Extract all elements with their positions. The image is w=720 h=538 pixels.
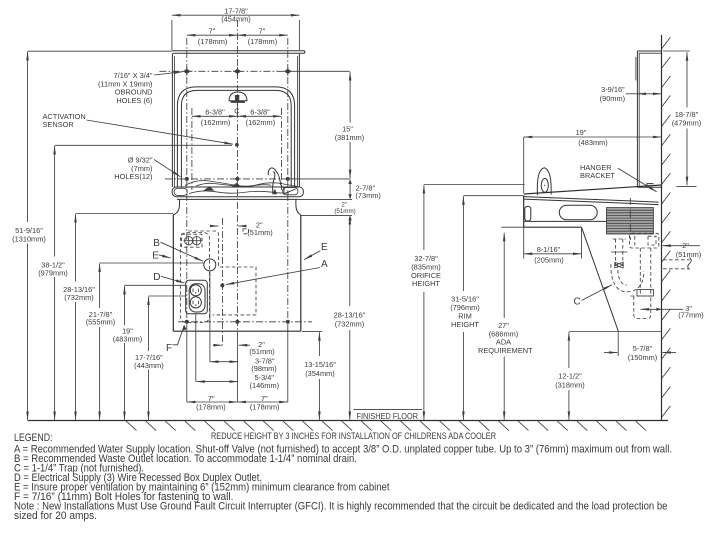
dim 27 ADA [501, 226, 524, 228]
svg-text:(479mm): (479mm) [672, 118, 702, 127]
bubbler (front view) [268, 168, 284, 195]
obround holes row 1 [184, 69, 189, 73]
svg-text:(162mm): (162mm) [246, 118, 276, 127]
dim 3-7/8 [210, 361, 238, 363]
tailpiece dashed [634, 296, 651, 319]
duplex outlet box D [186, 280, 208, 314]
water supply dashed zone A [188, 231, 256, 315]
svg-text:7": 7" [209, 27, 216, 36]
body seam [524, 220, 607, 222]
sloped lower panel [582, 227, 619, 331]
svg-text:BRACKET: BRACKET [580, 171, 615, 180]
svg-text:12-1/2": 12-1/2" [558, 372, 582, 381]
svg-text:(51mm): (51mm) [249, 347, 274, 356]
waste outlet alt circles [185, 237, 193, 245]
holes row 2 [185, 177, 189, 181]
hanger bracket bottom [637, 186, 661, 188]
svg-text:A: A [321, 259, 328, 270]
svg-text:E: E [321, 242, 328, 253]
dim 2-7/8 [348, 179, 351, 184]
svg-text:(1310mm): (1310mm) [12, 235, 46, 244]
vent grille [607, 208, 654, 234]
svg-text:2": 2" [682, 241, 689, 250]
svg-text:(205mm): (205mm) [534, 255, 564, 264]
side panel [637, 50, 661, 52]
rim band lines [524, 197, 659, 203]
cabinet shoulders [173, 199, 179, 214]
svg-text:13-15/16": 13-15/16" [304, 360, 336, 369]
tray lip line [177, 198, 299, 200]
dim 21-7/8 [100, 262, 204, 264]
floor hatching [126, 421, 646, 431]
svg-text:(732mm): (732mm) [335, 320, 365, 329]
svg-text:HOLES(12): HOLES(12) [114, 172, 152, 181]
svg-text:Note : New Installations Must: Note : New Installations Must Use Ground… [14, 501, 668, 513]
waste outlet circle B [204, 259, 216, 271]
wall line [661, 35, 663, 421]
dim 17-7/16 [149, 295, 186, 297]
grille centerline [629, 198, 631, 240]
svg-text:(483mm): (483mm) [578, 138, 608, 147]
cooler top surface [524, 185, 662, 194]
bottom edge [524, 226, 582, 228]
svg-text:(318mm): (318mm) [555, 381, 585, 390]
svg-text:(555mm): (555mm) [86, 318, 116, 327]
dim 2 center cabinet [211, 225, 219, 227]
back panel sides [171, 53, 173, 187]
svg-text:REQUIREMENT: REQUIREMENT [478, 346, 533, 355]
svg-text:HEIGHT: HEIGHT [451, 320, 479, 329]
svg-text:(73mm): (73mm) [355, 191, 380, 200]
mounting hole centerline row 1 [159, 70, 289, 72]
dim 19 left [125, 284, 186, 286]
dim 6-3/8 left [192, 115, 238, 117]
wall stub pipe dashed [663, 259, 690, 261]
svg-text:E: E [152, 251, 159, 262]
dim 28-13/16 right [349, 216, 351, 306]
svg-text:8-1/16": 8-1/16" [537, 245, 561, 254]
dim 3-9/16 [637, 93, 661, 95]
svg-text:(51mm): (51mm) [247, 228, 272, 237]
dim 28-13/16 left [76, 213, 174, 215]
louver pill [559, 205, 597, 219]
svg-text:6-3/8": 6-3/8" [205, 108, 225, 117]
waste arm dashed [630, 233, 659, 248]
cabinet sides and bottom [172, 215, 174, 331]
receptor tray [172, 187, 303, 197]
hole column centerlines [186, 38, 188, 331]
trap C curve [611, 264, 644, 292]
dim 32-7/8 orifice height [424, 184, 525, 186]
svg-text:C: C [574, 297, 581, 308]
svg-text:(150mm): (150mm) [628, 353, 658, 362]
dim 5-7/8 [617, 332, 619, 357]
svg-text:28-13/16": 28-13/16" [334, 311, 366, 320]
svg-text:FINISHED FLOOR: FINISHED FLOOR [357, 412, 419, 421]
svg-text:REDUCE HEIGHT BY 3 INCHES FOR: REDUCE HEIGHT BY 3 INCHES FOR INSTALLATI… [211, 431, 496, 441]
dim 19 side [524, 136, 662, 138]
dim 51-9/16 [28, 50, 172, 52]
svg-text:sized for 20 amps.: sized for 20 amps. [14, 510, 97, 522]
basin outer outline [177, 87, 294, 187]
svg-text:(381mm): (381mm) [335, 133, 365, 142]
svg-text:6-3/8": 6-3/8" [250, 108, 270, 117]
basin inner outline [181, 90, 291, 187]
dim 7 bottom right [237, 401, 287, 403]
finished floor label [354, 409, 423, 411]
activation sensor housing arch [229, 92, 247, 101]
svg-text:(90mm): (90mm) [600, 94, 625, 103]
holes row 3 [185, 320, 189, 324]
bubbler (side view) [537, 168, 551, 195]
svg-text:(178mm): (178mm) [198, 37, 228, 46]
svg-text:(178mm): (178mm) [250, 403, 280, 412]
svg-text:19": 19" [576, 128, 587, 137]
dim 8-1/16 [523, 227, 525, 258]
svg-text:(354mm): (354mm) [305, 369, 335, 378]
svg-text:(146mm): (146mm) [250, 381, 280, 390]
dim 6-3/8 right [237, 115, 281, 117]
svg-text:(98mm): (98mm) [251, 364, 276, 373]
svg-text:(178mm): (178mm) [248, 37, 278, 46]
svg-text:(178mm): (178mm) [196, 403, 226, 412]
dim 3 trap [641, 308, 684, 310]
svg-text:B: B [153, 238, 160, 249]
svg-text:HEIGHT: HEIGHT [412, 279, 440, 288]
hole centerline row 2 [165, 178, 290, 180]
dim 38-1/2 [55, 144, 232, 146]
dim 7 left [187, 34, 238, 36]
front face [523, 196, 525, 228]
dim 17-7/8 [171, 20, 173, 50]
svg-text:(51mm): (51mm) [334, 208, 355, 215]
dim 13-15/16 [302, 331, 322, 333]
svg-text:HOLES (6): HOLES (6) [116, 96, 152, 105]
extension verticals inside cabinet [222, 218, 224, 345]
back panel top slab [172, 50, 305, 52]
dim 7 right [237, 34, 287, 36]
svg-text:D: D [153, 272, 160, 283]
hole centerline row 3 [178, 321, 312, 323]
supply pipe dashed [615, 239, 617, 266]
ventilation clearance dashed box E [180, 233, 209, 323]
dim 7 bottom left [187, 401, 238, 403]
svg-text:(979mm): (979mm) [38, 269, 68, 278]
svg-text:3-9/16": 3-9/16" [601, 85, 625, 94]
svg-text:F: F [166, 343, 172, 354]
svg-text:(51mm): (51mm) [676, 250, 701, 259]
dim 31-5/16 rim height [463, 195, 523, 197]
finished floor line [28, 420, 669, 422]
svg-text:7": 7" [259, 27, 266, 36]
front pill [525, 206, 531, 221]
node A [220, 283, 224, 287]
dim 5-3/4 [196, 381, 238, 383]
svg-text:SENSOR: SENSOR [43, 120, 74, 129]
waste outlet dashed box [182, 234, 203, 247]
svg-text:(454mm): (454mm) [221, 14, 251, 23]
svg-text:(77mm): (77mm) [678, 310, 703, 319]
dim 2 right [348, 215, 351, 220]
dim 2 wall stub [662, 245, 700, 247]
dim 2 bottom [213, 344, 222, 346]
svg-text:(443mm): (443mm) [134, 361, 164, 370]
svg-text:5-7/8": 5-7/8" [633, 344, 653, 353]
svg-text:(732mm): (732mm) [64, 293, 94, 302]
drain pipe dashed [639, 248, 641, 296]
dim 18-7/8 [663, 50, 690, 52]
dim 12-1/2 [569, 331, 662, 333]
basin deck waves [185, 181, 298, 187]
svg-text:(483mm): (483mm) [113, 335, 143, 344]
dim 15 [349, 72, 351, 123]
shut-off valve [615, 262, 623, 268]
svg-text:(162mm): (162mm) [201, 118, 231, 127]
wall hatching [662, 37, 671, 417]
